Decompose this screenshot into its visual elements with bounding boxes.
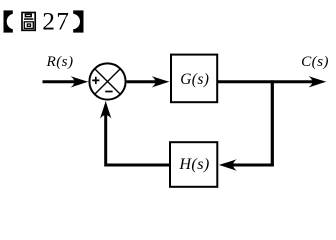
block G(s) box — [171, 55, 217, 103]
sign plus — [92, 77, 99, 84]
summing junction circle — [89, 63, 125, 99]
title bracket right 】 — [65, 10, 84, 32]
wire summing junction to G(s) — [127, 76, 170, 87]
svg-text:H(s): H(s) — [178, 155, 209, 173]
wire branch down to H(s) — [219, 159, 274, 170]
node branch point — [271, 80, 274, 166]
sign minus — [105, 91, 112, 93]
svg-text:C(s): C(s) — [301, 53, 329, 70]
title bracket left 【 — [4, 10, 22, 32]
svg-text:R(s): R(s) — [46, 53, 74, 70]
wire H(s) to summing junction — [100, 101, 170, 165]
wire G(s) to output C(s) — [218, 76, 327, 87]
svg-text:G(s): G(s) — [180, 71, 209, 88]
title glyph 圖 — [22, 13, 35, 31]
block H(s) box — [170, 142, 217, 187]
wire input R(s) to summing junction — [43, 76, 89, 87]
